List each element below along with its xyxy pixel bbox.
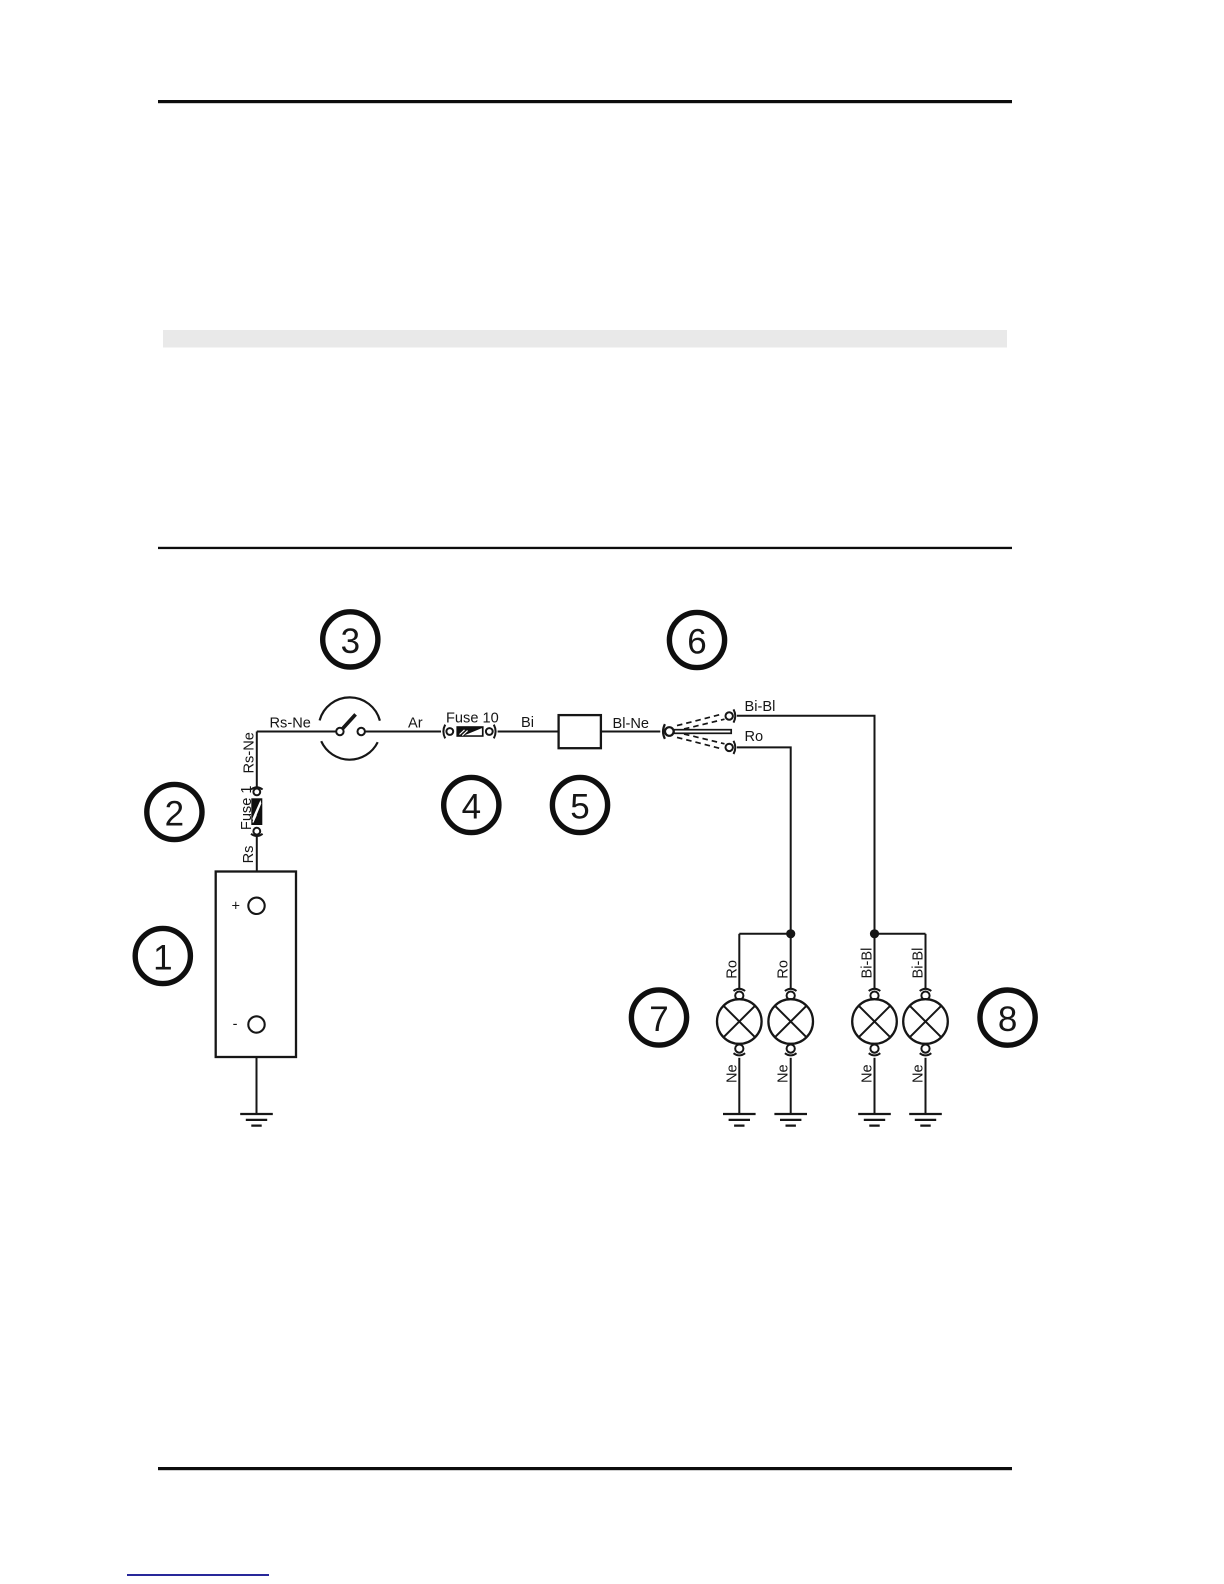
svg-text:Ro: Ro: [745, 729, 764, 745]
svg-text:Bi-Bl: Bi-Bl: [860, 948, 876, 979]
svg-text:Fuse 1: Fuse 1: [239, 785, 255, 830]
svg-text:2: 2: [165, 794, 184, 833]
svg-text:6: 6: [687, 622, 706, 661]
svg-text:7: 7: [649, 1000, 668, 1039]
svg-text:+: +: [232, 898, 241, 914]
svg-text:3: 3: [341, 622, 360, 661]
svg-text:5: 5: [570, 787, 589, 826]
svg-text:Bi-Bl: Bi-Bl: [745, 699, 776, 715]
svg-text:Bi: Bi: [521, 715, 534, 731]
svg-text:Fuse 10: Fuse 10: [446, 710, 499, 726]
svg-text:Ne: Ne: [776, 1064, 792, 1083]
svg-text:Ne: Ne: [911, 1064, 927, 1083]
svg-text:Ar: Ar: [408, 715, 423, 731]
svg-text:Rs: Rs: [241, 846, 257, 864]
svg-text:1: 1: [153, 938, 172, 977]
svg-text:8: 8: [998, 1000, 1017, 1039]
svg-text:Rs-Ne: Rs-Ne: [242, 732, 258, 773]
svg-text:Ro: Ro: [776, 960, 792, 979]
svg-text:Ne: Ne: [860, 1064, 876, 1083]
svg-text:Rs-Ne: Rs-Ne: [270, 715, 311, 731]
svg-text:Bi-Bl: Bi-Bl: [911, 948, 927, 979]
svg-text:4: 4: [462, 787, 481, 826]
svg-text:-: -: [233, 1016, 238, 1032]
svg-text:Ro: Ro: [724, 960, 740, 979]
svg-text:Bl-Ne: Bl-Ne: [613, 716, 650, 732]
svg-text:Ne: Ne: [724, 1064, 740, 1083]
